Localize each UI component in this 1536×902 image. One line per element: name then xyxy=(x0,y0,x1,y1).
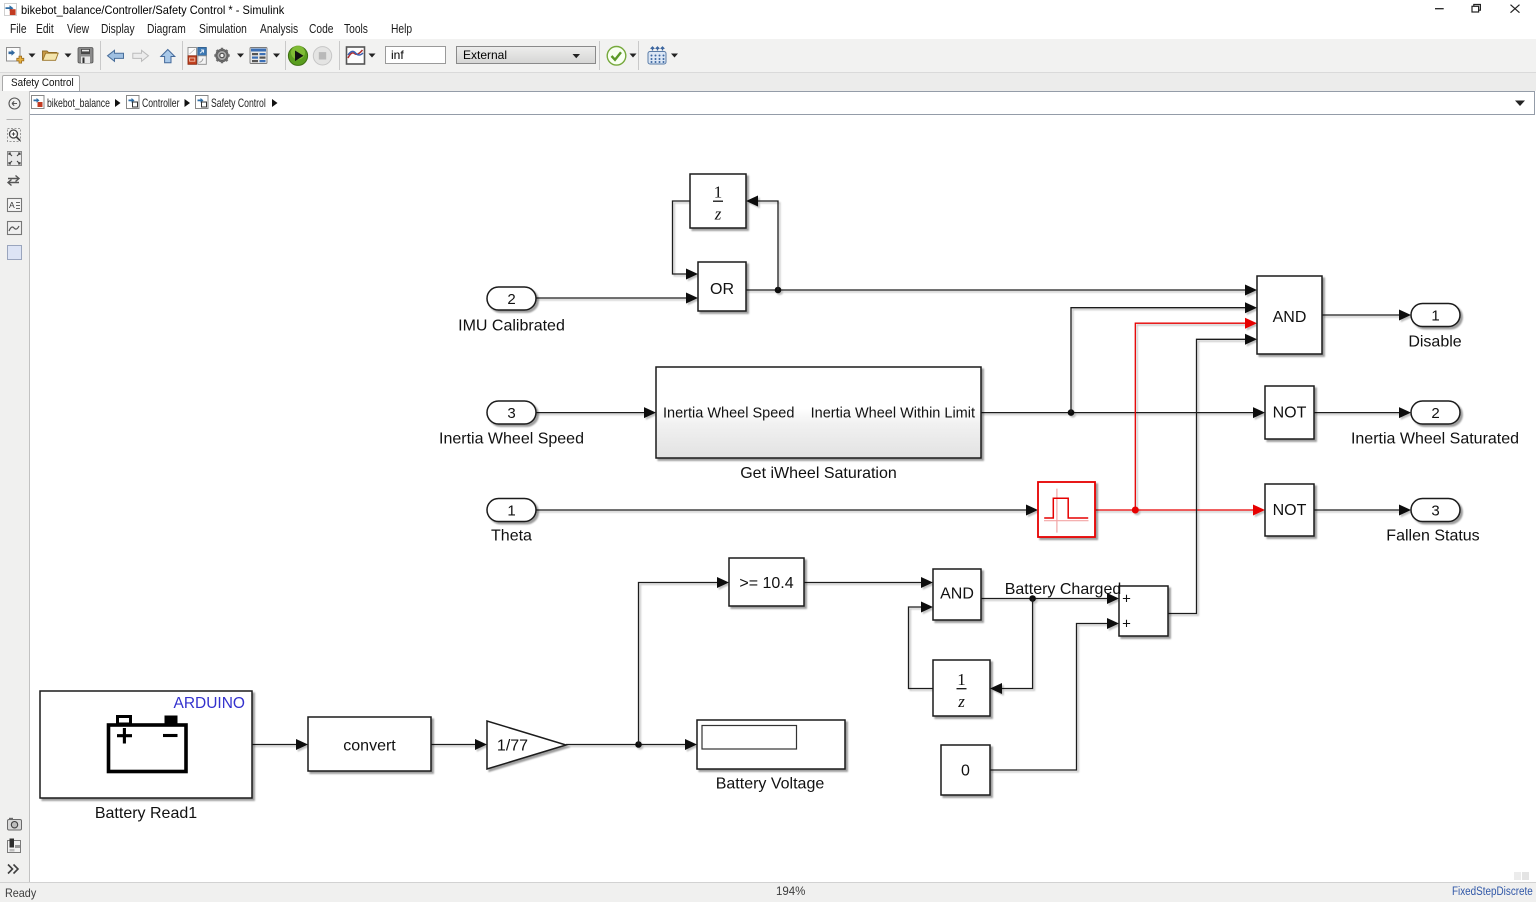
svg-text:3: 3 xyxy=(507,405,515,422)
breadcrumb model icons xyxy=(32,96,45,109)
display block Battery Voltage xyxy=(697,720,845,793)
block convert (data type conversion) xyxy=(308,717,431,771)
constant 0 xyxy=(941,745,990,795)
toolbar: new model xyxy=(7,48,24,64)
wire: OR output to AND input 1 xyxy=(746,285,1257,296)
window close xyxy=(1511,5,1520,13)
svg-text:NOT: NOT xyxy=(1273,404,1307,421)
toolbar: save floppy xyxy=(78,48,93,64)
svg-text:Battery Voltage: Battery Voltage xyxy=(716,776,825,793)
fallen detector block (red, pulse icon) xyxy=(1038,482,1095,537)
svg-text:Battery Charged: Battery Charged xyxy=(1005,581,1122,598)
svg-text:Inertia Wheel Within Limit: Inertia Wheel Within Limit xyxy=(811,406,975,422)
gain block 1/77 xyxy=(487,721,566,769)
toolbar: open folder xyxy=(43,51,59,61)
breadcrumb right dropdown xyxy=(1515,101,1525,107)
inport 3 Inertia Wheel Speed xyxy=(439,401,584,448)
wire: Inport 2 to OR input 2 xyxy=(535,293,698,304)
sum block xyxy=(1119,586,1168,636)
OR logic block xyxy=(698,262,746,311)
toolbar: gear xyxy=(214,48,229,63)
wire: AND output to Outport 1 xyxy=(1322,310,1411,321)
wire: Unit Delay output down to OR input 1 xyxy=(673,201,699,280)
unit delay block 1/z (top) xyxy=(690,174,746,228)
subsystem Get iWheel Saturation xyxy=(656,367,981,482)
toolbar: validate check xyxy=(607,47,626,66)
titlebar app icon xyxy=(5,4,17,16)
compare block >= 10.4 xyxy=(729,558,804,606)
svg-text:Get iWheel Saturation: Get iWheel Saturation xyxy=(740,465,897,482)
svg-text:Fallen Status: Fallen Status xyxy=(1386,528,1479,545)
wire: NOT1 output to Outport 2 xyxy=(1314,407,1411,418)
toolbar: run button xyxy=(288,46,307,66)
svg-text:1: 1 xyxy=(957,670,966,689)
title bar xyxy=(0,0,1536,19)
wire: Battery Read1 output to convert input xyxy=(252,739,308,750)
toolbar: model settings table xyxy=(250,48,267,64)
outport 3 Fallen Status xyxy=(1386,499,1479,545)
block Battery Read1 (Arduino) xyxy=(40,691,252,822)
svg-text:1: 1 xyxy=(1431,308,1439,325)
toolbar: back arrow xyxy=(108,50,124,61)
junction on OR output xyxy=(775,287,782,294)
junction on subsystem output xyxy=(1068,409,1075,416)
toolbar: pacing/keyboard xyxy=(648,47,666,64)
tab row xyxy=(0,73,1536,91)
svg-text:AND: AND xyxy=(940,586,974,603)
svg-text:Disable: Disable xyxy=(1408,334,1461,351)
svg-text:convert: convert xyxy=(343,737,396,754)
wire: compare output to small AND input 1 xyxy=(804,577,933,588)
svg-text:Inertia Wheel Saturated: Inertia Wheel Saturated xyxy=(1351,431,1519,448)
inport 2 IMU Calibrated xyxy=(458,287,565,335)
status bar xyxy=(0,882,1536,902)
canvas resize grip xyxy=(1514,872,1529,880)
toolbar: stop button (disabled) xyxy=(313,47,331,65)
wire (red): fallen-detector output to NOT2 input xyxy=(1095,505,1265,516)
toolbar: up arrow xyxy=(161,50,175,63)
svg-text:z: z xyxy=(957,692,965,711)
svg-text:Battery Read1: Battery Read1 xyxy=(95,805,197,822)
sidebar icons xyxy=(7,119,23,121)
svg-text:z: z xyxy=(714,205,722,224)
window minimize xyxy=(1435,8,1444,10)
svg-text:Inertia Wheel Speed: Inertia Wheel Speed xyxy=(439,431,584,448)
wire (red): branch up to AND input 3 xyxy=(1135,318,1257,510)
breadcrumb bar xyxy=(29,91,1535,115)
svg-text:IMU Calibrated: IMU Calibrated xyxy=(458,318,565,335)
toolbar: forward arrow (disabled) xyxy=(133,50,149,61)
left sidebar xyxy=(0,91,30,882)
wire: branch down into Unit Delay 2 input xyxy=(990,599,1033,695)
svg-text:Theta: Theta xyxy=(491,528,532,545)
wire: NOT2 output to Outport 3 xyxy=(1314,505,1411,516)
svg-text:+: + xyxy=(1122,615,1131,632)
svg-text:AND: AND xyxy=(1273,309,1307,326)
svg-text:A: A xyxy=(9,200,15,210)
wire: feedback from junction up into Unit Delay input xyxy=(746,196,778,291)
AND logic block (small) xyxy=(933,569,981,620)
svg-text:OR: OR xyxy=(710,281,734,298)
wire: Unit Delay 2 output to small AND input 2 xyxy=(909,602,934,689)
wire: branch up to AND input 2 xyxy=(1071,302,1257,412)
toolbar: library browser xyxy=(188,48,206,65)
inport 1 Theta xyxy=(487,499,536,545)
junction on gain output xyxy=(635,741,642,748)
wire: Sum output up to AND input 4 xyxy=(1168,334,1257,614)
wire: small AND output to Sum input 1 xyxy=(981,593,1119,604)
wire: subsystem output to NOT1 input xyxy=(981,407,1265,418)
toolbar: External combo arrow xyxy=(573,54,581,58)
toolbar: scope/sim data xyxy=(347,47,365,64)
wire: Inport 3 to subsystem input xyxy=(535,407,656,418)
sidebar bottom icons xyxy=(8,818,22,830)
wire: gain output to Battery Voltage display xyxy=(566,739,697,750)
wire: branch up to compare block input xyxy=(639,577,730,745)
outport 1 Disable xyxy=(1408,304,1461,351)
window restore xyxy=(1472,5,1480,13)
svg-text:NOT: NOT xyxy=(1273,502,1307,519)
breadcrumb: hide/show button xyxy=(9,98,20,109)
svg-text:ARDUINO: ARDUINO xyxy=(174,695,245,712)
svg-text:Inertia Wheel Speed: Inertia Wheel Speed xyxy=(663,406,794,422)
NOT block 1 xyxy=(1265,386,1314,439)
junction Battery Charged xyxy=(1029,595,1036,602)
svg-text:1: 1 xyxy=(507,503,515,520)
junction (red) on fallen-detector output xyxy=(1132,507,1139,514)
svg-text:0: 0 xyxy=(961,763,970,780)
svg-text:+: + xyxy=(1122,590,1131,607)
wire: Constant 0 output to Sum input 2 xyxy=(990,618,1119,770)
wire: convert output to gain input xyxy=(431,739,487,750)
unit delay block 1/z (bottom) xyxy=(933,660,990,716)
outport 2 Inertia Wheel Saturated xyxy=(1351,401,1519,448)
svg-text:2: 2 xyxy=(507,291,515,308)
wire: Inport 1 Theta to fallen-detector input xyxy=(535,505,1038,516)
svg-text:>= 10.4: >= 10.4 xyxy=(739,575,793,592)
svg-text:3: 3 xyxy=(1431,503,1439,520)
AND logic block (main) xyxy=(1257,276,1322,354)
NOT block 2 xyxy=(1265,484,1314,536)
svg-text:1/77: 1/77 xyxy=(497,737,528,754)
toolbar xyxy=(0,39,1536,73)
svg-text:2: 2 xyxy=(1431,405,1439,422)
menu bar xyxy=(0,19,1536,39)
svg-text:1: 1 xyxy=(714,183,723,202)
